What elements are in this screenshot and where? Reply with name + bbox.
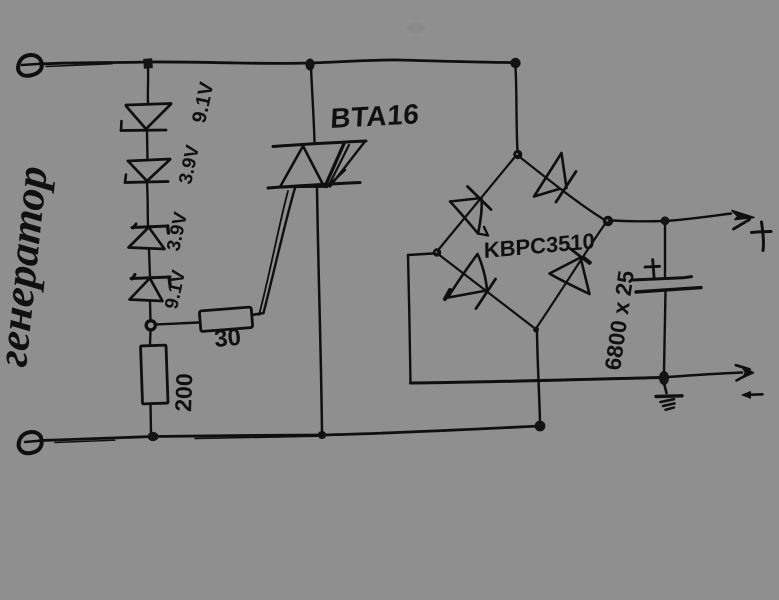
- wire top rail: [42, 60, 515, 64]
- zener diode VD2 3.9V: [125, 159, 170, 183]
- resistor R30 (30 ohm, gate): [199, 307, 252, 332]
- junction (minus rail / capacitor / ground): [659, 371, 669, 385]
- wire zener chain top lead: [147, 67, 150, 103]
- bridge diode VD8: [550, 249, 591, 295]
- wire triac to bottom rail: [317, 188, 322, 434]
- triac gate wire (double stroke): [264, 188, 296, 313]
- svg-text:200: 200: [170, 373, 197, 412]
- junction (top rail / bridge branch): [510, 58, 520, 68]
- wire bridge edge bottom-left: [440, 256, 533, 328]
- wire VD1-VD2: [146, 131, 149, 159]
- capacitor C1 plates: [634, 277, 702, 292]
- svg-text:BTA16: BTA16: [330, 98, 421, 134]
- label + (output): [752, 222, 772, 251]
- capacitor C1 bottom lead: [664, 291, 666, 373]
- junction (bottom rail / R200): [148, 432, 159, 441]
- junction (plus wire / capacitor): [661, 216, 670, 225]
- terminal X2 (generator input bottom): [19, 432, 48, 453]
- arrowhead minus: [742, 367, 754, 378]
- wire VD3-VD4: [149, 250, 150, 278]
- wire bridge bottom to bottom rail: [537, 332, 540, 423]
- zener diode VD1 9.1V: [121, 104, 171, 131]
- zener diode VD4 9.1V: [130, 275, 171, 302]
- wire top rail double stroke: [46, 64, 112, 67]
- node bridge right (plus): [603, 216, 613, 226]
- label + (capacitor polarity): [645, 260, 660, 280]
- junction (top rail / zener chain): [143, 58, 153, 69]
- arrowhead plus: [732, 211, 754, 220]
- wire triac branch vertical (top rail to triac): [311, 67, 315, 143]
- triac VS1 BTA16: [268, 141, 366, 188]
- wire bridge branch vertical (top rail to bridge): [516, 67, 518, 151]
- faint scan smudge: [407, 23, 425, 33]
- wire bridge edge top-left: [439, 158, 514, 249]
- wire R200 bottom lead: [149, 404, 152, 433]
- junction (top rail / triac branch): [305, 59, 314, 71]
- wire bottom rail double stroke: [195, 436, 318, 438]
- node (zener/R200/R30 junction): [146, 321, 155, 330]
- capacitor C1 top lead: [664, 225, 666, 277]
- ground symbol: [656, 385, 682, 410]
- wire minus vertical: [408, 255, 411, 383]
- label - (output, small left arrow): [747, 393, 763, 396]
- wire minus rail horizontal: [411, 378, 663, 384]
- wire plus output: [613, 214, 732, 222]
- wire bridge edge top-right: [521, 158, 604, 220]
- bridge diode VD7: [445, 254, 496, 309]
- terminal X1 (generator input top): [18, 55, 45, 76]
- wire bridge edge bottom-right: [537, 224, 605, 327]
- svg-text:30: 30: [213, 324, 242, 353]
- junction (bottom rail / triac branch): [318, 431, 326, 439]
- wire minus rail to arrow: [668, 373, 742, 378]
- junction (bottom rail / bridge branch): [535, 421, 546, 432]
- node bridge top (AC): [513, 150, 522, 159]
- wire VD4-node: [149, 302, 152, 322]
- zener diode VD3 3.9V: [129, 224, 169, 249]
- wire node to R200: [149, 330, 152, 345]
- bridge diode VD6: [534, 153, 576, 202]
- node bridge bottom (AC): [533, 327, 539, 333]
- wire bottom rail double stroke 2: [55, 440, 115, 442]
- bridge diode VD5: [450, 187, 491, 236]
- node bridge left (minus): [433, 248, 441, 256]
- wire R30 right lead to gate: [252, 313, 264, 315]
- resistor R200 (200 ohm): [141, 345, 169, 404]
- wire bridge left stub: [408, 254, 433, 256]
- wire bottom rail: [42, 426, 540, 441]
- wire VD2-VD3: [147, 183, 148, 225]
- wire node to R30: [155, 323, 199, 325]
